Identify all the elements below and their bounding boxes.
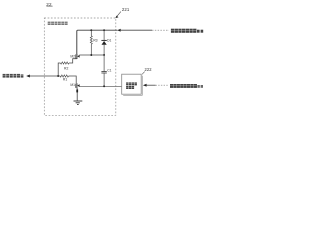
- wire top rail from M2 drain: [77, 30, 118, 54]
- arrowhead to wiring terminal: [26, 75, 30, 78]
- node on rail: R3 top: [90, 29, 92, 31]
- dashed box 221 chopper circuit: [44, 18, 116, 115]
- wire R2 to node: [58, 63, 60, 76]
- wire R1 to M1: [69, 76, 77, 83]
- wire M2 source to R2: [69, 59, 77, 63]
- svg-text:C1: C1: [107, 68, 111, 72]
- svg-text:M1: M1: [70, 83, 75, 87]
- wire from return-signal source: [147, 84, 156, 86]
- node R3 bottom: [90, 54, 92, 56]
- diode D1 (cathode up to rail): [101, 30, 106, 55]
- label 221 with leader arrow to box corner: [115, 7, 129, 18]
- label 22 (figure component number, underlined): [46, 2, 52, 7]
- wire M1 source to ground: [76, 88, 78, 101]
- wire M2 gate node: [79, 54, 104, 56]
- svg-text:M2: M2: [70, 55, 75, 59]
- node junction: [57, 75, 59, 77]
- transistor M2: [76, 54, 80, 59]
- ground: [74, 101, 83, 105]
- svg-text:R1: R1: [63, 78, 67, 82]
- text 返送時間設定部42より: [170, 84, 203, 88]
- terminal text 配線端子へ: [3, 74, 24, 78]
- wire M1 gate to box 222: [79, 85, 121, 87]
- svg-text:R3: R3: [93, 39, 97, 43]
- node on rail: D1 top: [103, 29, 105, 31]
- box 222 text 伝送信号 発生部: [126, 82, 137, 89]
- arrowhead into box (from common connection P2): [117, 29, 121, 32]
- capacitor C1 branch: [101, 55, 106, 86]
- node D1 bottom: [103, 54, 105, 56]
- wire lead to terminal: [30, 75, 58, 77]
- svg-text:222: 222: [145, 67, 153, 72]
- svg-text:R2: R2: [64, 66, 68, 70]
- resistor R3: [90, 30, 92, 55]
- text 共通接続部P2より: [171, 29, 203, 33]
- wire to P2 text: [121, 29, 152, 31]
- resistor R1: [58, 75, 68, 77]
- box 222 transmission signal generator: [122, 74, 143, 95]
- arrowhead into box 222 right side: [143, 84, 147, 87]
- label チョッパ回路 (chopper circuit): [48, 22, 68, 25]
- svg-text:D1: D1: [107, 39, 111, 43]
- resistor R2: [60, 62, 69, 64]
- svg-text:221: 221: [122, 7, 130, 12]
- transistor M1: [76, 83, 80, 88]
- node C1 bottom: [103, 85, 105, 87]
- label 222 with leader tick: [142, 67, 152, 74]
